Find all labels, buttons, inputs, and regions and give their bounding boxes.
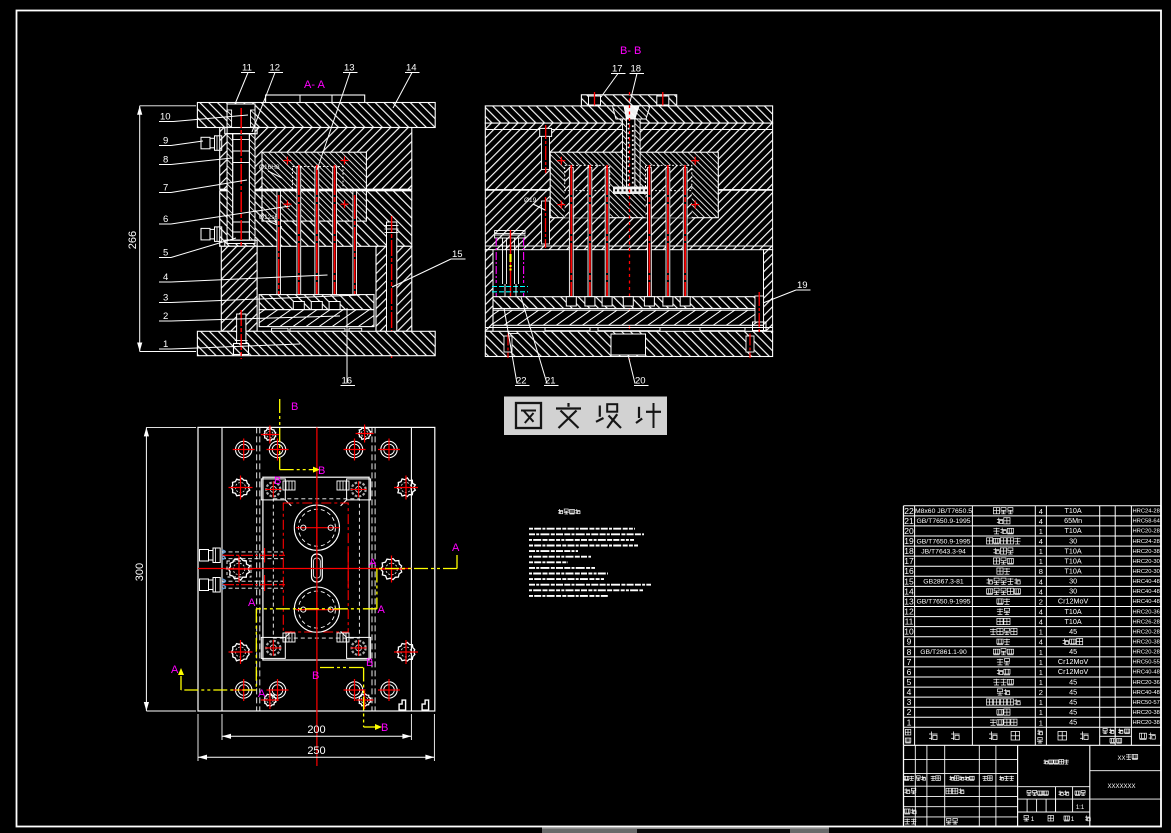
red position marks xyxy=(557,160,565,162)
parts list table xyxy=(904,506,1162,746)
svg-text:200: 200 xyxy=(307,724,325,736)
svg-text:B: B xyxy=(381,722,388,734)
svg-text:HRC20-28: HRC20-28 xyxy=(1133,529,1160,535)
section line B-B top xyxy=(279,399,281,470)
svg-text:A- A: A- A xyxy=(304,79,325,91)
svg-text:HRC20-28: HRC20-28 xyxy=(1133,629,1160,635)
svg-text:T10A: T10A xyxy=(1065,607,1082,616)
bottom clamp plate item 1 xyxy=(197,331,435,355)
svg-text:T10A: T10A xyxy=(1065,526,1082,535)
svg-text:3: 3 xyxy=(163,293,168,304)
section line A-A stepped xyxy=(456,555,458,569)
parting line xyxy=(485,189,550,191)
svg-text:1: 1 xyxy=(907,717,912,727)
svg-text:Ø16H8: Ø16H8 xyxy=(259,164,280,171)
svg-text:A: A xyxy=(378,604,386,616)
svg-text:Ø12s6: Ø12s6 xyxy=(259,214,279,221)
sprue slot xyxy=(312,554,323,582)
svg-text:HRC20-38: HRC20-38 xyxy=(1133,640,1160,646)
ejector base plate xyxy=(493,310,764,325)
svg-text:A: A xyxy=(452,542,460,554)
svg-text:21: 21 xyxy=(904,516,914,526)
parts list header row xyxy=(905,727,1155,743)
title block texts xyxy=(904,754,1137,824)
svg-text:20: 20 xyxy=(904,526,914,536)
svg-text:B: B xyxy=(274,475,281,487)
bolt circles row5 xyxy=(236,682,252,698)
svg-text:HRC40-48: HRC40-48 xyxy=(1133,599,1160,605)
svg-text:15: 15 xyxy=(452,249,463,260)
core insert item 6 xyxy=(262,191,366,221)
screw item 19 xyxy=(755,296,764,322)
svg-text:2: 2 xyxy=(1039,597,1043,606)
svg-text:45: 45 xyxy=(1069,687,1077,696)
svg-text:7: 7 xyxy=(907,657,912,667)
svg-text:5: 5 xyxy=(163,248,168,259)
svg-text:17: 17 xyxy=(612,64,623,75)
svg-text:HRC40-48: HRC40-48 xyxy=(1133,670,1160,676)
svg-text:A: A xyxy=(171,664,179,676)
sprue bushing item 18 xyxy=(612,106,626,119)
svg-text:T10A: T10A xyxy=(1065,546,1082,555)
corner comb details xyxy=(283,481,295,490)
svg-text:HRC50-55: HRC50-55 xyxy=(1133,660,1160,666)
corner L marks xyxy=(399,700,406,710)
svg-text:Cr12MoV: Cr12MoV xyxy=(1058,667,1089,676)
svg-text:1: 1 xyxy=(1039,547,1043,556)
svg-text:45: 45 xyxy=(1069,718,1077,727)
cavity insert block xyxy=(550,152,718,218)
svg-text:1: 1 xyxy=(1039,557,1043,566)
pin feet xyxy=(566,297,576,306)
core pockets dotted xyxy=(565,165,610,217)
hidden edge rails dashed xyxy=(256,427,258,711)
svg-text:266: 266 xyxy=(127,231,139,249)
knurled top pair xyxy=(264,428,276,440)
technical requirements title xyxy=(559,509,561,514)
knurled row4 xyxy=(231,643,249,661)
svg-text:14: 14 xyxy=(406,63,417,74)
svg-text:B: B xyxy=(366,657,373,669)
svg-text:1: 1 xyxy=(1039,678,1043,687)
svg-text:A: A xyxy=(258,688,266,700)
svg-text:13: 13 xyxy=(904,596,914,606)
A plate screws xyxy=(540,128,552,136)
svg-text:1: 1 xyxy=(1039,527,1043,536)
svg-text:HRC50-57: HRC50-57 xyxy=(1133,700,1160,706)
water channel hidden lines xyxy=(222,551,283,553)
return pin item 15 xyxy=(387,222,397,344)
svg-text:4: 4 xyxy=(1039,608,1043,617)
svg-text:GB2867.3-81: GB2867.3-81 xyxy=(923,579,964,586)
side walls xyxy=(485,250,493,332)
connector clips blue xyxy=(222,550,225,560)
stop pads xyxy=(272,328,289,331)
section view B-B xyxy=(485,92,772,360)
B plate item 5 xyxy=(220,191,412,247)
svg-text:1: 1 xyxy=(1039,708,1043,717)
svg-text:A: A xyxy=(248,597,256,609)
svg-text:19: 19 xyxy=(797,280,808,291)
core pin feet xyxy=(293,302,304,310)
core pins item 13 xyxy=(297,167,301,302)
svg-text:T10A: T10A xyxy=(1065,567,1082,576)
water connector item 9 lower xyxy=(201,228,210,240)
svg-text:4: 4 xyxy=(1039,618,1043,627)
svg-text:8: 8 xyxy=(163,155,168,166)
svg-text:T10A: T10A xyxy=(1065,617,1082,626)
svg-text:45: 45 xyxy=(1069,677,1077,686)
svg-text:HRC20-30: HRC20-30 xyxy=(1133,569,1160,575)
svg-text:9: 9 xyxy=(907,637,912,647)
ejector retainer plate xyxy=(493,297,764,309)
svg-text:16: 16 xyxy=(904,566,914,576)
svg-text:15: 15 xyxy=(904,576,914,586)
watermark box xyxy=(504,397,667,436)
ejector pins B-B xyxy=(569,168,573,302)
svg-text:4: 4 xyxy=(1039,587,1043,596)
bottom scroll bar xyxy=(542,828,829,833)
dimension 250 xyxy=(198,756,434,758)
section view A-A xyxy=(197,95,435,359)
svg-text:45: 45 xyxy=(1069,647,1077,656)
plate outline xyxy=(198,427,435,711)
svg-text:11: 11 xyxy=(905,617,914,627)
svg-text:14: 14 xyxy=(904,586,914,596)
svg-text:45: 45 xyxy=(1069,627,1077,636)
knurled row3 A-row xyxy=(229,558,250,580)
svg-text:GB/T7650.9-1995: GB/T7650.9-1995 xyxy=(916,518,970,525)
svg-text:GB/T7650.9-1995: GB/T7650.9-1995 xyxy=(916,538,970,545)
svg-text:20: 20 xyxy=(635,376,646,387)
svg-text:XX: XX xyxy=(1118,756,1126,762)
svg-text:HRC26-28: HRC26-28 xyxy=(1133,619,1160,625)
parting line xyxy=(220,189,412,191)
svg-text:B: B xyxy=(291,401,298,413)
svg-text:45: 45 xyxy=(1069,708,1077,717)
plan view xyxy=(198,427,435,766)
ejector pins xyxy=(277,191,281,296)
svg-text:2: 2 xyxy=(907,707,912,717)
svg-text:17: 17 xyxy=(904,556,914,566)
svg-text:4: 4 xyxy=(1039,577,1043,586)
A plate xyxy=(485,123,772,190)
section line B-B bottom xyxy=(320,667,364,669)
svg-text:HRC20-36: HRC20-36 xyxy=(1133,680,1160,686)
svg-text:GB/T2861.1-90: GB/T2861.1-90 xyxy=(920,649,967,656)
svg-text:M8x60 JB/T7650.5: M8x60 JB/T7650.5 xyxy=(915,508,972,515)
svg-text:30: 30 xyxy=(1069,577,1077,586)
svg-text:HRC40-48: HRC40-48 xyxy=(1133,589,1160,595)
top clamp plate item 10 xyxy=(197,103,435,128)
svg-text:1: 1 xyxy=(1071,816,1075,823)
svg-text:8: 8 xyxy=(1039,567,1043,576)
svg-text:GB/T7650.9-1995: GB/T7650.9-1995 xyxy=(916,599,970,606)
bolt circles row1 xyxy=(236,441,252,457)
stop pad strip xyxy=(485,327,772,329)
svg-text:2: 2 xyxy=(1039,688,1043,697)
right spacer block xyxy=(376,246,412,331)
svg-text:HRC24-28: HRC24-28 xyxy=(1133,509,1160,515)
locating screws item 17 xyxy=(589,96,601,105)
cavity dotted outline xyxy=(293,167,344,191)
red position marks xyxy=(283,160,291,162)
knurled bottom pair xyxy=(264,694,276,706)
svg-text:Cr12MoV: Cr12MoV xyxy=(1058,657,1089,666)
side slider mechanism items 21 22 xyxy=(495,231,525,234)
svg-text:30: 30 xyxy=(1069,536,1077,545)
svg-text:4: 4 xyxy=(163,272,168,283)
dimension 200 xyxy=(222,735,411,737)
knurled row2 xyxy=(231,478,249,497)
svg-text:A: A xyxy=(369,557,377,569)
clamp screw bottom left xyxy=(237,314,246,344)
inner dashed rect xyxy=(273,499,359,638)
svg-text:HRC24-28: HRC24-28 xyxy=(1133,539,1160,545)
svg-text:10: 10 xyxy=(904,627,914,637)
svg-text:13: 13 xyxy=(344,63,355,74)
svg-text:T10A: T10A xyxy=(1065,506,1082,515)
top clamp plate xyxy=(485,106,772,123)
technical requirements lines xyxy=(529,528,635,530)
svg-text:18: 18 xyxy=(904,546,914,556)
svg-text:HRC20-30: HRC20-30 xyxy=(1133,559,1160,565)
ejector retainer plate item 3 xyxy=(259,295,374,310)
svg-text:3: 3 xyxy=(907,697,912,707)
ejector base plate item 2 xyxy=(259,310,374,327)
svg-text:250: 250 xyxy=(307,745,325,757)
svg-text:B: B xyxy=(312,670,319,682)
svg-text:B: B xyxy=(318,465,325,477)
svg-text:9: 9 xyxy=(163,136,168,147)
water connectors plan xyxy=(200,550,209,562)
svg-text:30: 30 xyxy=(1069,587,1077,596)
top locating plate xyxy=(581,95,676,106)
title block xyxy=(904,745,1162,826)
core plate rect xyxy=(263,477,369,660)
cavity insert item 7 xyxy=(262,152,366,189)
svg-text:1: 1 xyxy=(1039,658,1043,667)
svg-text:Cr12MoV: Cr12MoV xyxy=(1058,597,1089,606)
svg-text:HRC20-38: HRC20-38 xyxy=(1133,720,1160,726)
svg-text:1:1: 1:1 xyxy=(1076,805,1085,811)
svg-text:8: 8 xyxy=(907,647,912,657)
svg-text:1: 1 xyxy=(1039,648,1043,657)
svg-text:12: 12 xyxy=(904,607,914,617)
svg-text:4: 4 xyxy=(1039,507,1043,516)
svg-text:1: 1 xyxy=(1039,718,1043,727)
svg-text:4: 4 xyxy=(907,687,912,697)
A plate item 8 xyxy=(220,128,412,190)
svg-text:19: 19 xyxy=(904,536,914,546)
svg-text:1: 1 xyxy=(1039,628,1043,637)
svg-text:45: 45 xyxy=(1069,697,1077,706)
svg-text:HRC20-36: HRC20-36 xyxy=(1133,609,1160,615)
svg-text:HRC58-64: HRC58-64 xyxy=(1133,519,1161,525)
svg-text:6: 6 xyxy=(163,214,168,225)
svg-text:1: 1 xyxy=(1031,816,1035,823)
dimension 266 xyxy=(139,106,141,352)
guide bushing assembly items 11 12 xyxy=(227,104,255,244)
ejection screws bottom xyxy=(504,336,512,352)
watermark text tu wen she ji xyxy=(516,403,541,428)
parts list rows xyxy=(904,506,1160,728)
locating ring strip xyxy=(266,95,365,104)
water connector item 9 upper xyxy=(201,137,210,149)
svg-text:JB/T7643.3-94: JB/T7643.3-94 xyxy=(921,548,966,555)
svg-text:300: 300 xyxy=(134,563,146,581)
svg-text:22: 22 xyxy=(516,376,527,387)
svg-text:HRC40-48: HRC40-48 xyxy=(1133,579,1160,585)
svg-text:Ø19: Ø19 xyxy=(524,197,537,204)
svg-text:HRC40-48: HRC40-48 xyxy=(1133,690,1160,696)
svg-text:5: 5 xyxy=(907,677,912,687)
svg-text:1: 1 xyxy=(163,339,168,350)
svg-text:10: 10 xyxy=(160,112,171,123)
left spacer block item 4 xyxy=(221,246,257,331)
svg-text:65Mn: 65Mn xyxy=(1064,516,1082,525)
red core rect xyxy=(283,503,348,632)
svg-text:1: 1 xyxy=(1039,698,1043,707)
svg-text:7: 7 xyxy=(163,183,168,194)
svg-text:18: 18 xyxy=(631,64,642,75)
cavity circle upper xyxy=(294,505,339,550)
bottom clamp plate xyxy=(485,331,772,356)
svg-text:4: 4 xyxy=(1039,517,1043,526)
svg-text:2: 2 xyxy=(163,311,168,322)
svg-text:11: 11 xyxy=(242,63,252,74)
cavity circle lower xyxy=(294,587,339,632)
svg-text:XXXXXXX: XXXXXXX xyxy=(1107,784,1135,790)
svg-text:4: 4 xyxy=(1039,638,1043,647)
svg-text:22: 22 xyxy=(904,506,914,516)
corner insert blocks xyxy=(261,479,285,500)
dimension 300 xyxy=(145,427,147,711)
svg-text:12: 12 xyxy=(270,63,281,74)
svg-text:6: 6 xyxy=(907,667,912,677)
inner plate edges xyxy=(221,427,223,711)
svg-text:4: 4 xyxy=(1039,537,1043,546)
svg-text:T10A: T10A xyxy=(1065,556,1082,565)
svg-text:HRC20-38: HRC20-38 xyxy=(1133,549,1160,555)
B plate xyxy=(485,190,772,250)
svg-text:B- B: B- B xyxy=(620,45,641,57)
center red crosshair xyxy=(316,427,318,766)
svg-text:HRC20-28: HRC20-28 xyxy=(1133,650,1160,656)
svg-text:HRC20-38: HRC20-38 xyxy=(1133,710,1160,716)
svg-text:1: 1 xyxy=(1039,668,1043,677)
